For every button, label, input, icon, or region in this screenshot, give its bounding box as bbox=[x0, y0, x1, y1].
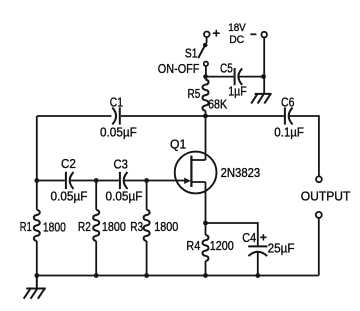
node gate/R3 junction bbox=[144, 178, 149, 183]
svg-text:25µF: 25µF bbox=[268, 240, 295, 255]
plus sign C4 bbox=[260, 234, 266, 240]
node switch/C5/R5 junction bbox=[203, 74, 208, 79]
wire bottom rail bbox=[37, 275, 319, 277]
node R1/rail junction bbox=[34, 273, 39, 278]
svg-text:0.1µF: 0.1µF bbox=[274, 125, 304, 140]
svg-text:C5: C5 bbox=[220, 61, 233, 76]
svg-text:1800: 1800 bbox=[43, 219, 66, 234]
svg-text:R2: R2 bbox=[78, 219, 91, 234]
capacitor C6 bbox=[284, 107, 286, 124]
wire top rail bbox=[37, 115, 111, 117]
resistor R3 bbox=[144, 210, 150, 241]
svg-text:Q1: Q1 bbox=[170, 137, 186, 152]
wire bbox=[208, 76, 234, 78]
svg-text:R4: R4 bbox=[186, 238, 200, 253]
svg-text:C2: C2 bbox=[61, 156, 76, 171]
svg-text:0.05µF: 0.05µF bbox=[51, 188, 88, 203]
node C4/rail junction bbox=[255, 273, 260, 278]
node source junction bbox=[203, 221, 208, 226]
plus sign battery bbox=[213, 30, 220, 37]
capacitor C4 bbox=[248, 245, 267, 247]
wire top rail mid bbox=[121, 115, 284, 117]
wire gate line bbox=[37, 180, 65, 182]
wire bbox=[125, 180, 186, 182]
ground (top, battery minus) bbox=[251, 94, 271, 104]
svg-text:1µF: 1µF bbox=[228, 84, 247, 99]
svg-text:R3: R3 bbox=[130, 219, 143, 234]
wire bbox=[263, 38, 265, 94]
svg-text:1800: 1800 bbox=[154, 219, 178, 234]
wire bbox=[239, 76, 263, 78]
svg-text:C4: C4 bbox=[242, 230, 256, 245]
wire bbox=[206, 37, 208, 43]
node gate/R2 junction bbox=[94, 178, 99, 183]
svg-text:C3: C3 bbox=[114, 156, 128, 171]
svg-text:68K: 68K bbox=[208, 97, 227, 112]
svg-text:18V: 18V bbox=[228, 22, 246, 34]
svg-text:R5: R5 bbox=[188, 86, 201, 101]
wire R4 bbox=[205, 223, 207, 276]
node left/gate junction bbox=[34, 178, 39, 183]
output terminal lower bbox=[316, 212, 322, 218]
capacitor C3 bbox=[119, 172, 121, 189]
battery - terminal bbox=[261, 32, 267, 38]
battery + terminal bbox=[204, 32, 210, 38]
capacitor C1 bbox=[119, 107, 121, 124]
resistor R5 bbox=[203, 80, 209, 111]
wire bbox=[71, 180, 119, 182]
resistor R1 bbox=[34, 210, 40, 241]
wire top rail right + drop to output bbox=[290, 116, 319, 176]
wire output to bottom rail bbox=[318, 218, 320, 276]
wire source branch bbox=[206, 223, 258, 245]
node R3/rail junction bbox=[144, 273, 149, 278]
node C5/minus junction bbox=[261, 74, 266, 79]
svg-text:0.05µF: 0.05µF bbox=[106, 188, 143, 203]
svg-text:OUTPUT: OUTPUT bbox=[301, 189, 351, 204]
wire bbox=[205, 66, 207, 76]
svg-text:0.05µF: 0.05µF bbox=[100, 125, 137, 140]
capacitor C5 bbox=[234, 68, 236, 85]
wire bbox=[205, 77, 207, 116]
svg-text:1800: 1800 bbox=[102, 219, 126, 234]
svg-text:R1: R1 bbox=[20, 219, 32, 234]
transistor Q1 2N3823 bbox=[175, 152, 217, 194]
resistor R4 bbox=[203, 235, 209, 261]
switch S1 bbox=[203, 43, 208, 48]
wire R3 bbox=[146, 181, 148, 276]
svg-text:ON-OFF: ON-OFF bbox=[158, 61, 200, 76]
ground (bottom left) bbox=[24, 276, 46, 299]
wire C4 bottom bbox=[257, 253, 259, 276]
svg-text:2N3823: 2N3823 bbox=[221, 165, 261, 180]
svg-text:DC: DC bbox=[229, 34, 244, 46]
wire left vertical bbox=[36, 116, 38, 276]
svg-text:1200: 1200 bbox=[210, 238, 234, 253]
wire R2 bbox=[95, 181, 97, 276]
node R5/rail junction bbox=[203, 114, 208, 119]
svg-text:S1: S1 bbox=[185, 46, 198, 61]
output terminal upper bbox=[316, 176, 322, 182]
resistor R2 bbox=[93, 210, 99, 241]
svg-text:C6: C6 bbox=[281, 95, 294, 110]
node R4/rail junction bbox=[203, 273, 208, 278]
node R2/rail junction bbox=[94, 273, 99, 278]
svg-text:C1: C1 bbox=[110, 95, 123, 110]
capacitor C2 bbox=[65, 172, 67, 189]
minus sign battery bbox=[250, 33, 256, 35]
